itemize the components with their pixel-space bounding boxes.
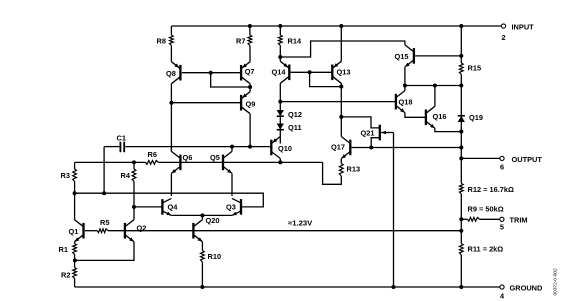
svg-text:2: 2	[501, 33, 505, 42]
svg-text:R1: R1	[59, 245, 68, 254]
junction: C1 column on lower rail	[102, 191, 106, 195]
wire: Q1 collector up to lower rail	[74, 193, 76, 220]
wire: Q13 collector column down to Q17	[340, 87, 342, 137]
terminal: OUTPUT pin circle	[500, 156, 504, 160]
junction: cascode node on right column	[459, 84, 463, 88]
svg-text:R13: R13	[347, 164, 361, 173]
wire: R2 to ground rail	[74, 279, 76, 288]
wire: Q12 to Q11	[279, 116, 281, 123]
wire: C1 drop to lower rail	[103, 147, 105, 194]
wire: R14 to node	[279, 46, 281, 58]
terminal: INPUT pin circle	[501, 24, 505, 28]
wire: Q15 emitter / Q18 collector / Q16 collector node	[405, 85, 461, 87]
svg-text:≈1.23V: ≈1.23V	[288, 219, 313, 228]
wire: C1 left plate lead	[104, 146, 119, 148]
wire: Q20 emitter to R10	[201, 242, 203, 251]
resistor R4	[132, 169, 136, 182]
wire: Q17 base line to right column	[352, 147, 462, 149]
capacitor C1	[120, 142, 124, 153]
wire: Q20 collector up	[201, 215, 203, 219]
junction: base rail tap Q8/Q7	[209, 71, 213, 75]
resistor R11	[459, 244, 463, 256]
wire: top rail to R8	[170, 26, 172, 35]
junction: Q9 base tap on left column	[169, 101, 173, 105]
wire: Q16 emitter to right column	[435, 128, 461, 131]
resistor R12	[459, 183, 463, 194]
resistor R14	[278, 35, 282, 46]
svg-text:R15: R15	[468, 64, 482, 73]
svg-text:R2: R2	[61, 271, 70, 280]
resistor R7	[248, 35, 252, 46]
wire: bandgap node to Q18 base	[280, 101, 396, 103]
wire: top supply rail to INPUT	[171, 25, 501, 27]
wire: Q14 collector down to Q12	[279, 83, 281, 110]
svg-text:6: 6	[500, 163, 504, 172]
junction: Q7 collector / Q9 emitter	[248, 85, 252, 89]
svg-text:Q5: Q5	[210, 153, 220, 162]
svg-text:INPUT: INPUT	[512, 23, 535, 32]
wire: R15 to Q19	[460, 75, 462, 116]
wire: Q1 emitter to R1	[74, 242, 76, 244]
wire: R7 to Q7 emitter	[249, 46, 251, 62]
junction: left column on lower rail	[73, 191, 77, 195]
resistor R3	[73, 169, 77, 182]
svg-text:Q7: Q7	[245, 67, 255, 76]
wire: C1 right plate to Q10 base	[125, 146, 271, 148]
junction: right column on ground rail	[459, 285, 463, 289]
wire: R3 to lower rail	[74, 182, 76, 194]
wire: R13 bottom jog to tail rail	[323, 162, 342, 184]
wire: junction to Q9 emitter	[249, 87, 251, 92]
junction: 1.23V rail on right column	[459, 229, 463, 233]
wire: Q1 base to R5	[85, 230, 98, 232]
transistor Q16	[426, 106, 435, 128]
transistor Q17	[341, 137, 350, 159]
wire: Q13 collector down	[340, 83, 342, 86]
wire: R4 top lead	[133, 162, 135, 169]
junction: Q17 base line on right column	[459, 146, 463, 150]
wire: Q2 emitter down	[75, 242, 134, 261]
svg-text:00372-0-002: 00372-0-002	[553, 268, 559, 296]
wire: top rail to R7	[249, 26, 251, 35]
wire: Q19 down right column	[460, 122, 462, 183]
svg-text:R12 = 16.7kΩ: R12 = 16.7kΩ	[468, 185, 514, 194]
junction: Q13 emitter on top rail	[339, 24, 343, 28]
svg-text:5: 5	[500, 222, 504, 231]
diode-connected transistor Q11	[277, 124, 284, 130]
wire: Q17 emitter to R13	[340, 159, 342, 164]
resistor R2	[73, 268, 77, 279]
resistor R6	[146, 161, 159, 165]
junction: OUTPUT tap	[459, 156, 463, 160]
wire: Q8 base to Q7 base	[182, 72, 241, 74]
svg-text:Q6: Q6	[183, 153, 193, 162]
wire: R8 to Q8 emitter	[170, 46, 172, 62]
wire: Q7/Q8 base to Q7 collector	[211, 73, 250, 87]
svg-text:Q10: Q10	[278, 144, 292, 153]
transistor Q15	[405, 45, 414, 67]
resistor R10	[201, 251, 205, 263]
transistor Q18	[396, 91, 405, 113]
svg-text:R10: R10	[208, 252, 222, 261]
wire: Q11 to Q10 emitter	[279, 130, 281, 137]
junction: R4 top on tail rail	[132, 160, 136, 164]
wire: 1.23V rail	[108, 230, 461, 232]
svg-text:R6: R6	[148, 150, 157, 159]
svg-text:Q14: Q14	[272, 68, 287, 77]
diode-connected transistor Q12	[277, 110, 284, 116]
wire: Q14 base to Q13 base	[291, 71, 333, 73]
wire: Q4/Q3 emitters join	[171, 214, 232, 216]
wire: Q6 collector up left column	[170, 147, 172, 152]
junction: Q18 base tap	[278, 100, 282, 104]
svg-text:R9 = 50kΩ: R9 = 50kΩ	[468, 204, 504, 213]
resistor R8	[170, 35, 174, 46]
wire: ground rail	[75, 286, 500, 288]
wire: tail rail R6 to jog	[159, 161, 323, 163]
svg-text:Q20: Q20	[206, 216, 220, 225]
transistor Q3	[232, 198, 241, 215]
svg-text:C1: C1	[117, 134, 126, 143]
junction: input column on top rail	[459, 24, 463, 28]
junction: Q16 collector	[433, 84, 437, 88]
junction: mirror base tap	[308, 70, 312, 74]
junction: Q20 collector on emitter wire	[200, 213, 204, 217]
junction: Q4 base tap on R4 column	[132, 205, 136, 209]
wire: R10 to ground rail	[201, 262, 203, 287]
transistor Q4	[162, 198, 171, 215]
wire: Q9 base to left column	[171, 102, 241, 104]
terminal: GROUND pin circle	[500, 285, 504, 289]
junction: Q21 base on ground rail	[392, 285, 396, 289]
transistor Q7	[241, 62, 250, 84]
wire: node to Q14 emitter	[279, 57, 281, 61]
wire: input column upper	[460, 26, 462, 63]
wire: tail rail corner to R3	[74, 162, 76, 169]
transistor Q6	[171, 151, 180, 173]
svg-text:Q13: Q13	[337, 68, 351, 77]
wire: lower rail with Q3 base hook	[75, 193, 264, 207]
wire: Q9 collector down to C1 node	[249, 114, 251, 147]
junction: R1/R2 node	[73, 258, 77, 262]
wire: Q18 collector up	[404, 86, 406, 91]
transistor Q20	[193, 220, 202, 242]
wire: Q10 collector to tail rail	[279, 159, 281, 163]
junction: Q15 base on input column	[459, 54, 463, 58]
resistor R15	[459, 63, 463, 75]
wire: Q13 emitter up to top rail	[340, 26, 342, 61]
svg-text:Q19: Q19	[469, 113, 483, 122]
terminal: TRIM pin circle	[500, 217, 504, 221]
wire: Q5 emitter down to Q3 collector	[231, 173, 233, 196]
wire: Q16 collector up	[434, 86, 436, 107]
junction: Q10 collector on tail rail	[278, 160, 282, 164]
wire: Q7 collector to junction	[249, 84, 251, 87]
svg-text:OUTPUT: OUTPUT	[512, 155, 543, 164]
svg-text:Q1: Q1	[69, 227, 79, 236]
wire: R14 bottom jog to Q15 collector	[280, 41, 405, 57]
resistor R9	[468, 217, 480, 221]
svg-text:Q9: Q9	[246, 100, 256, 109]
wire: R9 to TRIM	[480, 218, 500, 220]
wire: Q6 emitter down to Q4 collector	[170, 173, 172, 196]
wire: top rail to R14	[279, 26, 281, 35]
transistor Q13	[332, 61, 341, 83]
junction: R14 top on top rail	[278, 24, 282, 28]
junction: Q18 collector	[403, 84, 407, 88]
wire: Q4 base	[134, 206, 162, 208]
wire: Q15 emitter down	[404, 67, 406, 86]
wire: R12 to R9 node	[460, 194, 462, 244]
svg-text:R8: R8	[157, 37, 166, 46]
svg-text:Q18: Q18	[399, 97, 413, 106]
junction: Q21 collector tap	[339, 115, 343, 119]
junction: R7 top on top rail	[248, 24, 252, 28]
svg-text:R4: R4	[121, 171, 131, 180]
transistor Q21	[341, 117, 393, 148]
svg-text:GROUND: GROUND	[510, 283, 544, 292]
junction: Q5 collector on C1 wire	[230, 145, 234, 149]
wire: R1 to node	[74, 255, 76, 268]
wire: Q8 collector down left column	[170, 84, 172, 152]
wire: R9 left lead	[461, 218, 467, 220]
svg-text:R14: R14	[288, 37, 302, 46]
svg-text:R5: R5	[100, 218, 109, 227]
resistor R13	[339, 164, 343, 177]
transistor Q10	[271, 137, 280, 159]
resistor R5	[97, 229, 108, 233]
wire: Q18 emitter to Q16 base	[405, 113, 426, 118]
svg-text:Q2: Q2	[137, 223, 147, 232]
wire: R11 to ground rail	[460, 255, 462, 287]
wire: tail rail R3 to Q10 collector	[75, 161, 146, 163]
svg-text:R7: R7	[236, 37, 245, 46]
svg-text:R3: R3	[61, 171, 70, 180]
svg-text:Q21: Q21	[361, 128, 375, 137]
svg-text:Q4: Q4	[168, 202, 179, 211]
wire: Q15 base to input column	[415, 55, 461, 57]
svg-text:Q8: Q8	[166, 69, 176, 78]
junction: Q9 collector on C1 wire	[248, 145, 252, 149]
svg-text:Q3: Q3	[226, 202, 236, 211]
junction: Q16 emitter on right column	[459, 130, 463, 134]
svg-text:Q11: Q11	[288, 123, 302, 132]
transistor Q5	[223, 151, 232, 173]
transistor Q14	[280, 61, 289, 83]
junction: Q21 emitter on Q17 base line	[369, 146, 373, 150]
junction: R10 on ground rail	[200, 285, 204, 289]
junction: R14 bottom / Q14 emitter / link to Q15	[278, 55, 282, 59]
diode-connected transistor Q19	[458, 116, 465, 122]
transistor Q9	[241, 92, 250, 114]
transistor Q2	[125, 220, 134, 242]
svg-text:Q16: Q16	[433, 112, 447, 121]
wire: OUTPUT tap	[461, 157, 499, 159]
junction: R9 tap	[459, 217, 463, 221]
wire: base tap down to Q13 collector	[310, 72, 342, 86]
wire: R4 down to Q2 collector	[133, 182, 135, 220]
wire: Q10 emitter up to Q11	[279, 137, 281, 144]
svg-text:TRIM: TRIM	[510, 215, 528, 224]
svg-text:Q17: Q17	[331, 142, 345, 151]
resistor R1	[73, 244, 77, 255]
svg-text:Q12: Q12	[288, 110, 302, 119]
transistor Q1	[75, 220, 84, 242]
transistor Q8	[171, 62, 180, 84]
svg-text:R11 = 2kΩ: R11 = 2kΩ	[468, 245, 504, 254]
wire: Q5 collector up to C1 wire	[231, 147, 233, 152]
svg-text:Q15: Q15	[395, 52, 409, 61]
junction: Q13 collector / base link	[339, 85, 343, 89]
wire: Q21 base down to ground	[393, 133, 395, 288]
